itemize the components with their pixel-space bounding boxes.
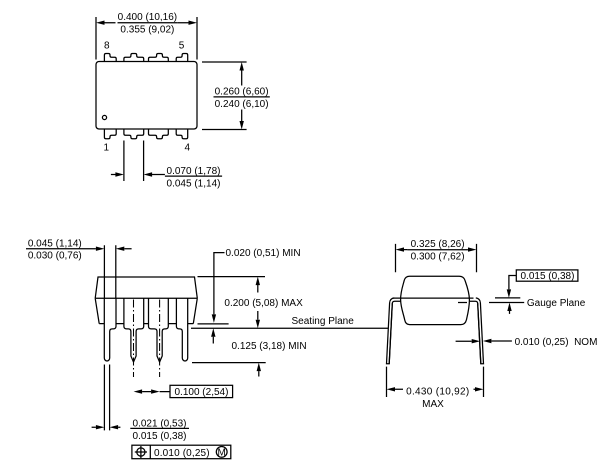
svg-text:0.400 (10,16): 0.400 (10,16) bbox=[118, 12, 178, 23]
dimension 0.200 MAX line bbox=[257, 285, 259, 320]
pin 1 index circle bbox=[102, 115, 106, 119]
svg-text:8: 8 bbox=[104, 40, 110, 51]
body bottom extension line bbox=[198, 323, 229, 325]
top view body bbox=[96, 62, 197, 130]
front lead 3 bbox=[149, 298, 169, 362]
pin 6 top bbox=[149, 54, 169, 62]
svg-text:0.200 (5,08) MAX: 0.200 (5,08) MAX bbox=[224, 298, 303, 309]
svg-text:0.260 (6,60): 0.260 (6,60) bbox=[215, 87, 269, 98]
seating plane line bbox=[191, 327, 388, 329]
svg-text:0.030 (0,76): 0.030 (0,76) bbox=[28, 251, 82, 262]
svg-text:1: 1 bbox=[104, 143, 110, 154]
position tolerance symbol bbox=[137, 448, 145, 456]
dimension 0.260/0.240 extension lines bbox=[202, 62, 247, 130]
body top extension line bbox=[198, 276, 266, 278]
svg-text:0.300 (7,62): 0.300 (7,62) bbox=[411, 252, 465, 263]
dimension 0.045/0.030 extension lines bbox=[104, 245, 115, 298]
dimension 0.021/0.015 extension lines bbox=[104, 365, 109, 431]
dimension 0.021/0.015 arrows bbox=[92, 426, 121, 428]
dimension 0.400/0.355 line and arrows bbox=[105, 22, 189, 24]
dimension 0.015 leader bbox=[509, 276, 516, 290]
dimension 0.400/0.355 extension lines bbox=[96, 17, 197, 60]
pin 7 top bbox=[124, 54, 144, 62]
pin 5 top bbox=[176, 54, 188, 62]
svg-text:0.045 (1,14): 0.045 (1,14) bbox=[167, 178, 221, 189]
svg-text:MAX: MAX bbox=[422, 399, 444, 410]
end view right lead bbox=[476, 298, 484, 364]
pin 3 bottom bbox=[149, 129, 169, 139]
front lead 1 bbox=[104, 298, 116, 361]
svg-text:0.010 (0,25) NOM: 0.010 (0,25) NOM bbox=[515, 337, 598, 348]
dimension 0.010 NOM leader bbox=[456, 340, 512, 342]
pin 8 top bbox=[104, 54, 116, 62]
lead top line bbox=[393, 297, 521, 299]
svg-text:5: 5 bbox=[179, 40, 185, 51]
svg-text:0.070 (1,78): 0.070 (1,78) bbox=[167, 166, 221, 177]
lead tip extension line bbox=[192, 362, 266, 364]
end view left lead bbox=[387, 298, 395, 364]
circled M modifier bbox=[216, 447, 227, 458]
feature control frame bbox=[132, 445, 231, 459]
dimension 0.070/0.045 extension lines bbox=[124, 141, 144, 182]
pin 4 bottom bbox=[176, 129, 188, 139]
svg-text:0.100 (2,54): 0.100 (2,54) bbox=[175, 387, 229, 398]
svg-text:0.125 (3,18) MIN: 0.125 (3,18) MIN bbox=[232, 341, 307, 352]
lead 3 centerline bbox=[159, 300, 161, 378]
svg-text:0.015 (0,38): 0.015 (0,38) bbox=[521, 271, 575, 282]
dimension 0.430 MAX arrows bbox=[395, 388, 475, 390]
pin 1 bottom bbox=[104, 129, 116, 139]
svg-text:0.020 (0,51) MIN: 0.020 (0,51) MIN bbox=[226, 248, 301, 259]
lead 2 centerline bbox=[133, 300, 135, 378]
dimension 0.015 box bbox=[516, 270, 578, 281]
svg-text:0.015 (0,38): 0.015 (0,38) bbox=[133, 431, 187, 442]
pin 2 bottom bbox=[124, 129, 144, 139]
dimension 0.325/0.300 extension lines bbox=[396, 244, 477, 272]
svg-text:0.355 (9,02): 0.355 (9,02) bbox=[120, 25, 174, 36]
dimension 0.260/0.240 line and arrows bbox=[241, 71, 243, 122]
svg-text:4: 4 bbox=[185, 143, 191, 154]
front lead 4 bbox=[176, 298, 187, 361]
gauge plane line bbox=[458, 302, 524, 304]
end view body bbox=[401, 276, 470, 324]
front lead 2 bbox=[124, 298, 144, 362]
svg-text:Gauge Plane: Gauge Plane bbox=[527, 298, 586, 309]
dimension 0.070/0.045 arrows bbox=[111, 174, 165, 176]
svg-text:M: M bbox=[218, 447, 226, 458]
svg-text:0.240 (6,10): 0.240 (6,10) bbox=[215, 99, 269, 110]
svg-text:0.325 (8,26): 0.325 (8,26) bbox=[411, 239, 465, 250]
dimension 0.125 MIN bbox=[212, 337, 214, 344]
svg-text:0.021 (0,53): 0.021 (0,53) bbox=[133, 418, 187, 429]
svg-text:0.430 (10,92): 0.430 (10,92) bbox=[406, 386, 469, 397]
dimension 0.045/0.030 arrows bbox=[84, 248, 132, 250]
dimension 0.100 box bbox=[170, 385, 233, 397]
svg-text:0.045 (1,14): 0.045 (1,14) bbox=[28, 238, 82, 249]
front view body outline bbox=[95, 277, 197, 324]
dimension 0.020 MIN leader bbox=[214, 253, 225, 315]
svg-text:Seating Plane: Seating Plane bbox=[292, 316, 355, 327]
dimension 0.100 between centerlines bbox=[142, 391, 170, 393]
front view body bottom edge segments bbox=[99, 323, 193, 325]
svg-text:0.010 (0,25): 0.010 (0,25) bbox=[154, 448, 210, 459]
dimension 0.430 MAX extension lines bbox=[387, 367, 484, 397]
dimension 0.325/0.300 arrows bbox=[404, 249, 468, 251]
